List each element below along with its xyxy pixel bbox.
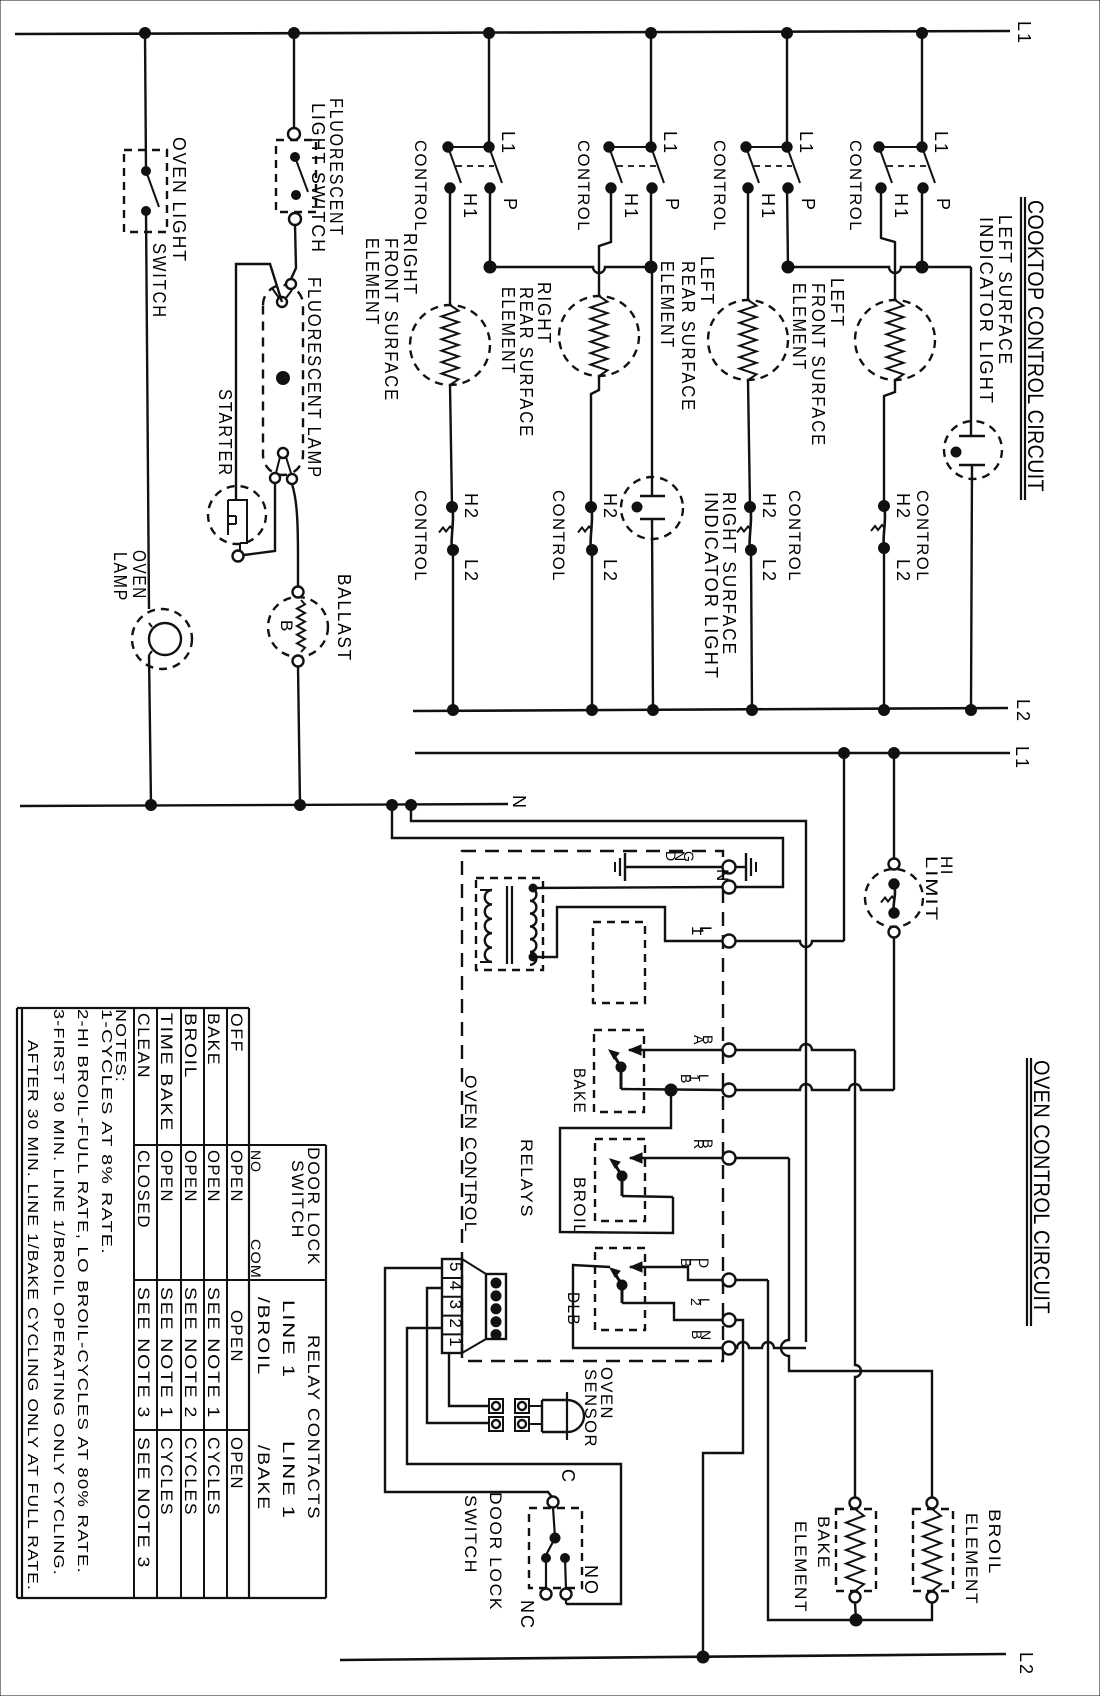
oven sensor connector half B (515, 1399, 529, 1413)
wire starter to lamp pin (244, 484, 275, 555)
junction on L1 rail x=787 (782, 28, 793, 39)
socket pin dot 4 (491, 1291, 501, 1301)
svg-text:D: D (663, 851, 679, 862)
svg-text:SWITCH: SWITCH (461, 1495, 480, 1574)
wire L2 drop u4 (883, 548, 885, 710)
svg-text:P: P (933, 198, 953, 212)
wire ballast to N (298, 666, 300, 805)
fluorescent light switch (288, 128, 300, 140)
svg-text:TIME BAKE: TIME BAKE (157, 1013, 176, 1132)
wire indicator2 drop (970, 267, 972, 436)
svg-text:P: P (662, 198, 682, 212)
fluorescent lamp pins bottom (278, 448, 288, 458)
svg-text:1: 1 (446, 1337, 465, 1348)
svg-text:ELEMENT: ELEMENT (657, 261, 677, 349)
junction on L1 rail x=145 (140, 28, 151, 39)
svg-text:AFTER 30 MIN. LINE 1/BAKE CYCL: AFTER 30 MIN. LINE 1/BAKE CYCLING ONLY A… (24, 1040, 41, 1591)
svg-text:LEFT: LEFT (697, 256, 717, 306)
svg-text:LINE 1: LINE 1 (279, 1441, 298, 1520)
svg-text:L2: L2 (461, 559, 481, 583)
wire coil to N terminal (530, 887, 723, 888)
svg-text:SWITCH: SWITCH (149, 243, 169, 319)
wire L2 drop u1 (452, 550, 454, 710)
control switch H2 u2 (586, 502, 597, 513)
svg-text:B: B (678, 1258, 694, 1268)
svg-text:OPEN: OPEN (181, 1150, 200, 1203)
wire L1 drop (650, 33, 652, 147)
connector socket block (486, 1274, 506, 1339)
svg-text:CONTROL: CONTROL (710, 140, 729, 232)
svg-text:NO: NO (581, 1565, 601, 1596)
svg-text:/BAKE: /BAKE (254, 1445, 273, 1511)
wire bake common to broil common detour (560, 1090, 673, 1233)
junction on L1 rail x=651 (646, 28, 657, 39)
svg-text:BROIL: BROIL (181, 1013, 200, 1079)
left front surface element (855, 300, 935, 380)
svg-text:CONTROL: CONTROL (411, 490, 430, 582)
table outer border (16, 1008, 18, 1598)
svg-text:INDICATOR LIGHT: INDICATOR LIGHT (701, 492, 721, 680)
door lock switch common (548, 1497, 559, 1508)
wire N rail (20, 804, 508, 806)
junction on cooktop L2 rail x=971 (966, 705, 977, 716)
oven light switch (124, 150, 167, 232)
svg-text:SEE NOTE 1: SEE NOTE 1 (157, 1287, 176, 1419)
broil relay (595, 1139, 645, 1221)
svg-text:ELEMENT: ELEMENT (962, 1513, 981, 1605)
surface unit control switch (484, 142, 494, 152)
svg-text:L2: L2 (1016, 1652, 1036, 1676)
svg-text:SEE NOTE 3: SEE NOTE 3 (134, 1437, 153, 1569)
transformer primary coil (485, 890, 492, 962)
junction on cooktop L2 rail x=592 (587, 705, 598, 716)
svg-text:LINE 1: LINE 1 (279, 1300, 298, 1379)
svg-text:FLUORESCENT LAMP: FLUORESCENT LAMP (304, 277, 324, 479)
wire P u4 drop (921, 188, 923, 267)
svg-text:ELEMENT: ELEMENT (362, 238, 382, 326)
wire element to H2 u4 (884, 380, 895, 506)
svg-text:BAKE: BAKE (204, 1013, 223, 1066)
svg-text:RELAYS: RELAYS (517, 1139, 536, 1218)
svg-text:DOOR LOCK: DOOR LOCK (486, 1492, 505, 1611)
wire N to control board N terminal (392, 805, 783, 887)
svg-text:2: 2 (446, 1318, 465, 1329)
wire L1 drop (921, 33, 923, 147)
terminal BR (723, 1152, 736, 1165)
wire pin5 to door lock common (385, 1268, 552, 1497)
svg-text:RIGHT: RIGHT (400, 233, 420, 296)
svg-text:L1: L1 (1012, 746, 1032, 770)
svg-text:OPEN: OPEN (227, 1150, 246, 1203)
svg-text:OFF: OFF (227, 1013, 246, 1053)
bake element (850, 1498, 861, 1509)
junction on cooktop L2 rail x=884 (879, 705, 890, 716)
wire starter top lead (236, 264, 282, 500)
svg-text:L1: L1 (796, 131, 816, 155)
svg-text:LEFT SURFACE: LEFT SURFACE (995, 215, 1015, 366)
wire L1 drop (786, 33, 788, 147)
svg-text:A: A (691, 1035, 707, 1045)
svg-text:H1: H1 (891, 193, 911, 220)
wire L1 oven rail (415, 752, 1010, 755)
wire indicator2 feed horizontal (788, 267, 971, 273)
svg-text:H1: H1 (621, 193, 641, 220)
svg-text:N: N (509, 795, 529, 810)
harness connector pin block (442, 1259, 462, 1353)
svg-text:REAR SURFACE: REAR SURFACE (678, 261, 698, 412)
svg-text:B: B (678, 1074, 694, 1084)
wire dlb blade to L2 terminal (621, 1285, 624, 1303)
wire L2 cooktop rail (413, 708, 1008, 711)
wire pin2 to door lock NO (407, 1328, 621, 1604)
oven control board box (462, 851, 723, 1361)
svg-text:L1: L1 (498, 131, 518, 155)
right surface indicator light (621, 477, 683, 539)
svg-text:FLUORESCENT: FLUORESCENT (326, 98, 346, 237)
svg-text:B: B (689, 1330, 705, 1340)
surface unit control switch (646, 142, 656, 152)
wire L1 top rail (15, 31, 1010, 34)
svg-text:SEE NOTE 3: SEE NOTE 3 (134, 1287, 153, 1419)
svg-text:SENSOR: SENSOR (581, 1369, 600, 1448)
svg-text:CYCLES: CYCLES (204, 1437, 223, 1516)
socket pin dot 2 (491, 1317, 501, 1327)
wire DLB terminal to dlb contact (630, 1267, 723, 1280)
wire H1 to element u3 (747, 188, 749, 300)
svg-text:OPEN: OPEN (157, 1150, 176, 1203)
display module box (593, 922, 645, 1003)
wire P u1 to indicator line (489, 188, 491, 267)
oven sensor connector half A (489, 1399, 503, 1413)
wire oven lamp to N (149, 655, 151, 805)
wire H1 to element u2 (599, 188, 611, 296)
wire L1 drop (488, 33, 490, 147)
transformer box (476, 878, 543, 970)
transformer secondary coil (530, 888, 536, 965)
svg-text:LAMP: LAMP (110, 552, 130, 602)
left rear surface element (708, 300, 788, 380)
door lock NC terminal (541, 1589, 552, 1600)
svg-text:BAKE: BAKE (570, 1068, 589, 1114)
svg-text:ELEMENT: ELEMENT (791, 1521, 810, 1613)
socket pin dot 3 (491, 1304, 501, 1314)
oven sensor probe (529, 1405, 542, 1407)
junction on cooktop L2 rail x=752 (747, 705, 758, 716)
junction on L1 rail x=922 (917, 28, 928, 39)
wire H1 to element u1 (449, 188, 451, 305)
svg-text:RELAY CONTACTS: RELAY CONTACTS (304, 1335, 323, 1520)
svg-text:2-HI BROIL-FULL RATE, LO BROIL: 2-HI BROIL-FULL RATE, LO BROIL-CYCLES AT… (74, 1009, 91, 1574)
wire L2 terminal to L2 rail (703, 1320, 743, 1656)
svg-text:R: R (691, 1139, 707, 1150)
right front surface element (410, 305, 490, 385)
socket pin dot 1 (491, 1330, 501, 1340)
svg-text:FRONT SURFACE: FRONT SURFACE (381, 238, 401, 402)
svg-text:COM: COM (248, 1239, 264, 1279)
svg-text:H2: H2 (759, 493, 779, 520)
wire element to H2 u1 (450, 385, 452, 507)
svg-text:CONTROL: CONTROL (411, 140, 430, 232)
svg-text:3-FIRST 30 MIN. LINE 1/BROIL O: 3-FIRST 30 MIN. LINE 1/BROIL OPERATING O… (50, 1009, 67, 1576)
svg-text:L2: L2 (759, 559, 779, 583)
svg-text:NO: NO (248, 1150, 264, 1173)
wire coil to L1 terminal (530, 907, 723, 957)
svg-text:RIGHT: RIGHT (534, 282, 554, 345)
ballast (268, 597, 328, 657)
wire P u3 to indicator line 2 (787, 188, 788, 267)
transformer polarity dots (529, 884, 537, 892)
wire switch to lamp pin (291, 225, 296, 279)
svg-text:NC: NC (517, 1600, 537, 1630)
svg-text:3: 3 (446, 1300, 465, 1311)
svg-text:5: 5 (446, 1262, 465, 1273)
svg-text:B: B (277, 620, 296, 633)
wire element to H2 u3 (748, 380, 750, 507)
junction on N rail (146, 800, 157, 811)
junction on L1 rail x=489 (484, 28, 495, 39)
wire external ground (735, 866, 746, 868)
wire BR to broil element (735, 1157, 789, 1159)
fluorescent lamp outline (263, 285, 303, 475)
wire element to H2 u2 (591, 376, 599, 507)
broil element (927, 1498, 938, 1509)
wire NB terminal to dlb pivot (573, 1265, 723, 1348)
svg-text:ELEMENT: ELEMENT (789, 283, 809, 371)
svg-text:P: P (798, 198, 818, 212)
svg-text:L1: L1 (931, 131, 951, 155)
svg-text:RIGHT SURFACE: RIGHT SURFACE (719, 492, 739, 656)
wire indicator to L2 rail (652, 519, 653, 710)
junction on cooktop L2 rail x=453 (448, 705, 459, 716)
junction on N rail (295, 800, 306, 811)
svg-text:H2: H2 (600, 493, 620, 520)
svg-text:2: 2 (688, 1298, 704, 1307)
svg-text:CLEAN: CLEAN (134, 1013, 153, 1079)
hi limit switch (889, 859, 900, 870)
svg-text:OVEN: OVEN (129, 550, 149, 600)
svg-text:L2: L2 (893, 559, 913, 583)
svg-text:OPEN: OPEN (227, 1437, 246, 1490)
wire L2 drop u3 (751, 550, 752, 710)
svg-text:FRONT SURFACE: FRONT SURFACE (808, 283, 828, 447)
svg-text:OVEN CONTROL CIRCUIT: OVEN CONTROL CIRCUIT (1029, 1060, 1054, 1314)
junction on L1 rail x=294 (289, 28, 300, 39)
right rear surface element (559, 296, 639, 376)
fluorescent lamp centre dot (277, 372, 290, 385)
wire P u2 joins indicator line (650, 188, 652, 267)
socket pin dot 5 (491, 1278, 501, 1288)
transformer core (506, 886, 508, 964)
wire BA to bake element (736, 1044, 855, 1050)
wire H1 to element u4 (881, 188, 895, 300)
svg-text:4: 4 (446, 1281, 465, 1292)
svg-text:BROIL: BROIL (570, 1177, 589, 1235)
wire fluorescent switch drop (293, 33, 295, 133)
svg-text:/BROIL: /BROIL (254, 1297, 273, 1376)
left surface indicator light (944, 421, 1002, 479)
svg-text:CLOSED: CLOSED (134, 1150, 153, 1229)
svg-text:CONTROL: CONTROL (549, 490, 568, 582)
svg-text:P: P (500, 198, 520, 212)
svg-text:L1: L1 (660, 131, 680, 155)
svg-text:N: N (713, 869, 732, 883)
svg-text:H1: H1 (758, 193, 778, 220)
connector wedge (462, 1259, 486, 1274)
svg-text:CONTROL: CONTROL (913, 490, 932, 582)
svg-text:LIGHT SWITCH: LIGHT SWITCH (308, 103, 328, 254)
svg-text:OVEN LIGHT: OVEN LIGHT (169, 137, 189, 263)
svg-text:ELEMENT: ELEMENT (498, 287, 518, 375)
svg-text:BROIL: BROIL (985, 1509, 1004, 1575)
svg-text:REAR SURFACE: REAR SURFACE (516, 287, 536, 438)
svg-text:CYCLES: CYCLES (157, 1437, 176, 1516)
svg-text:CONTROL: CONTROL (574, 140, 593, 232)
svg-text:H1: H1 (460, 193, 480, 220)
svg-text:1: 1 (688, 926, 707, 937)
svg-text:LIMIT: LIMIT (922, 856, 941, 922)
terminal NB (723, 1342, 736, 1355)
junction on N rail (406, 800, 417, 811)
svg-text:SEE NOTE 2: SEE NOTE 2 (181, 1287, 200, 1419)
svg-text:L1: L1 (1014, 21, 1034, 45)
wire L2 drop u2 (591, 550, 593, 710)
wire hi limit to bake relay common (893, 937, 895, 1090)
terminal L2 (723, 1314, 736, 1327)
control switch H2 u4 (879, 501, 890, 512)
junction on N rail (387, 800, 398, 811)
svg-text:H2: H2 (461, 493, 481, 520)
wire L1 to hi limit (893, 753, 895, 859)
control switch H2 u1 (447, 502, 458, 513)
wire indicator drop (651, 267, 653, 496)
wire indicator2 to L2 rail (971, 465, 972, 710)
wire DLB terminal external corner (735, 1279, 768, 1281)
wire pin1 to sensor (449, 1353, 489, 1406)
ground symbol internal (624, 853, 626, 881)
wire N to NB terminal (411, 805, 806, 1342)
svg-text:CYCLES: CYCLES (181, 1437, 200, 1516)
wire BA terminal to bake relay contact (629, 1049, 723, 1051)
oven lamp (132, 609, 192, 669)
svg-text:COOKTOP CONTROL CIRCUIT: COOKTOP CONTROL CIRCUIT (1023, 200, 1048, 492)
svg-text:CONTROL: CONTROL (785, 490, 804, 582)
svg-text:STARTER: STARTER (215, 389, 235, 477)
terminal GND (723, 861, 736, 874)
surface unit control switch (917, 142, 927, 152)
svg-text:L2: L2 (600, 559, 620, 583)
wire BR terminal to broil relay contact (630, 1157, 723, 1159)
svg-text:H2: H2 (893, 493, 913, 520)
terminal L1 (723, 935, 736, 948)
svg-text:SEE NOTE 1: SEE NOTE 1 (204, 1287, 223, 1419)
wire DLB terminal down to elements (768, 1280, 856, 1620)
svg-text:INDICATOR LIGHT: INDICATOR LIGHT (976, 217, 996, 405)
wire NB external (736, 1342, 806, 1348)
wire indicator feed horizontal (490, 267, 652, 273)
surface unit control switch (782, 142, 792, 152)
junction on cooktop L2 rail x=653 (648, 705, 659, 716)
wire switch to oven lamp (146, 211, 149, 609)
wire lamp pin to ballast (292, 484, 298, 589)
terminal DLB (723, 1274, 736, 1287)
wire elements to junction (855, 1602, 856, 1620)
svg-text:BALLAST: BALLAST (334, 574, 354, 662)
ground symbol external (745, 853, 747, 881)
starter (208, 486, 266, 544)
dlb relay (595, 1248, 645, 1330)
wire L2 oven rail (340, 1654, 1006, 1660)
svg-text:CONTROL: CONTROL (846, 140, 865, 232)
svg-text:SWITCH: SWITCH (288, 1160, 307, 1239)
svg-text:BAKE: BAKE (814, 1516, 833, 1569)
fluorescent lamp pins top (286, 279, 296, 289)
svg-text:L2: L2 (1013, 699, 1033, 723)
door lock switch (529, 1508, 582, 1588)
svg-text:LEFT: LEFT (827, 278, 847, 328)
wire L1 rail to L1 terminal (843, 753, 845, 941)
wire broil relay blade out (621, 1176, 624, 1196)
bake relay (594, 1030, 644, 1112)
door lock NO terminal (561, 1589, 572, 1600)
terminal N (723, 881, 736, 894)
svg-text:OPEN: OPEN (204, 1150, 223, 1203)
terminal BA (723, 1044, 736, 1057)
terminal L1-B (723, 1084, 736, 1097)
svg-text:C: C (558, 1469, 578, 1484)
svg-text:OVEN CONTROL: OVEN CONTROL (461, 1075, 480, 1233)
wire internal ground (625, 866, 723, 868)
wire bake relay blade to common (620, 1067, 623, 1089)
control switch H2 u3 (745, 502, 756, 513)
table grid lines (133, 1008, 135, 1598)
svg-text:1-CYCLES AT 8% RATE.: 1-CYCLES AT 8% RATE. (98, 1009, 115, 1255)
wire pin4 to sensor (427, 1288, 489, 1423)
wire oven light drop (145, 33, 146, 171)
svg-text:OPEN: OPEN (227, 1310, 246, 1363)
